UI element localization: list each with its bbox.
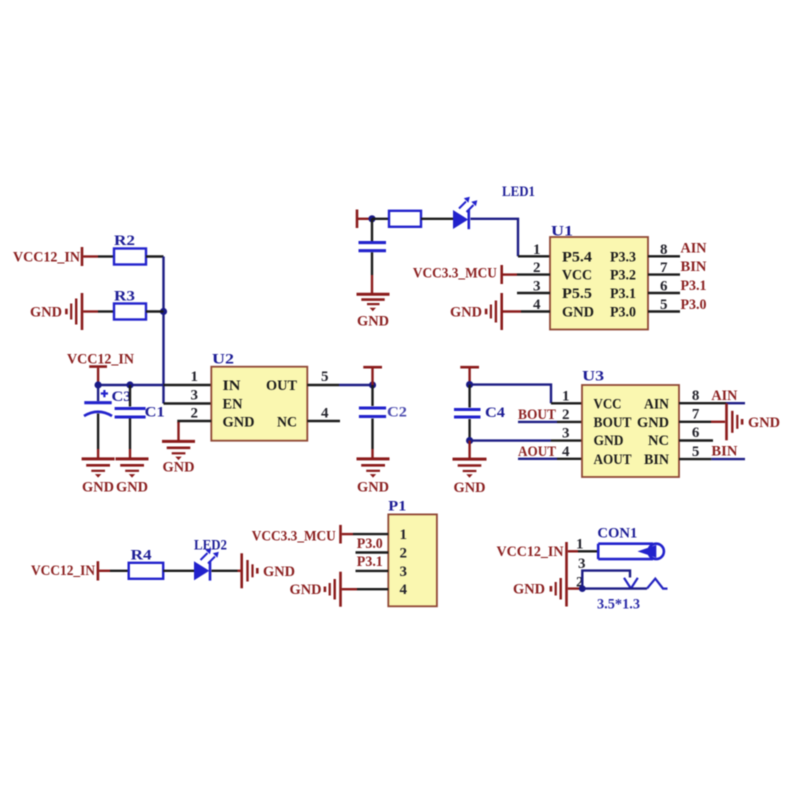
svg-text:GND: GND — [357, 480, 389, 496]
svg-text:GND: GND — [82, 480, 114, 496]
node junction at resistor/cap — [368, 215, 375, 222]
svg-text:GND: GND — [748, 415, 780, 431]
svg-text:3.5*1.3: 3.5*1.3 — [597, 597, 640, 613]
svg-text:P3.0: P3.0 — [610, 305, 636, 321]
svg-text:VCC12_IN: VCC12_IN — [67, 352, 134, 368]
ground (earth) below C1 — [116, 459, 149, 478]
regulator U2 body — [211, 367, 307, 441]
svg-text:GND: GND — [594, 433, 624, 449]
resistor R3 — [114, 304, 146, 320]
svg-text:3: 3 — [562, 426, 570, 442]
ground (earth) below LED1 cap — [357, 294, 390, 311]
svg-text:C2: C2 — [387, 405, 407, 421]
svg-text:VCC3.3_MCU: VCC3.3_MCU — [252, 529, 336, 545]
power terminal above C2 — [363, 366, 382, 369]
node junction at C1 — [126, 381, 133, 388]
svg-text:R3: R3 — [114, 289, 135, 305]
audio IC U3 body — [582, 385, 679, 477]
svg-text:GND: GND — [223, 415, 255, 431]
svg-text:U1: U1 — [551, 224, 573, 240]
wire GND to U1 pin4 — [503, 310, 521, 312]
node junction C4 top — [466, 381, 473, 388]
wire GND to R3 — [83, 310, 98, 312]
node junction at C2 — [369, 381, 376, 388]
svg-text:EN: EN — [223, 397, 243, 413]
jack sleeve wire and spring — [582, 587, 647, 589]
svg-text:U2: U2 — [212, 352, 234, 368]
svg-text:7: 7 — [692, 407, 700, 423]
svg-text:2: 2 — [562, 407, 570, 423]
node junction CON1 sleeve — [579, 585, 586, 592]
ground (bars) at LED2 — [242, 553, 258, 588]
svg-text:AIN: AIN — [681, 241, 707, 257]
wire P3.0 to P1 pin2 — [356, 551, 389, 553]
svg-text:1: 1 — [562, 389, 570, 405]
U1 pin3 stub — [517, 292, 550, 294]
svg-text:8: 8 — [692, 388, 700, 404]
U2 NC stub — [307, 420, 340, 422]
svg-text:IN: IN — [223, 378, 241, 394]
svg-text:4: 4 — [400, 582, 408, 598]
LED1 diode — [453, 197, 477, 229]
wire C4 bottom to ground — [468, 441, 470, 458]
svg-text:4: 4 — [562, 444, 570, 460]
svg-text:P5.4: P5.4 — [562, 249, 593, 265]
ground (bars) at CON1 — [551, 578, 561, 600]
wire C4 bottom to U3 pin3 — [470, 439, 551, 441]
svg-text:GND: GND — [357, 314, 389, 330]
svg-text:VCC12_IN: VCC12_IN — [13, 250, 80, 266]
svg-text:1: 1 — [400, 527, 408, 543]
wire junction to resistor — [372, 218, 389, 220]
svg-text:OUT: OUT — [266, 378, 297, 394]
ground (earth) below C4 — [453, 459, 487, 478]
wire U2 GND pin2 — [179, 421, 212, 423]
ground (bars) at R3 — [66, 293, 82, 330]
svg-text:BIN: BIN — [681, 259, 707, 275]
svg-text:AOUT: AOUT — [594, 452, 632, 468]
svg-text:P3.0: P3.0 — [681, 297, 707, 313]
wire GND bar to junction — [568, 587, 583, 589]
svg-text:P3.1: P3.1 — [357, 554, 383, 570]
svg-text:GND: GND — [30, 305, 62, 321]
wire C4 top to U3 pin1 — [470, 385, 551, 404]
wire stub to junction — [357, 218, 372, 220]
jack switch contact wires — [582, 571, 630, 589]
node junction R3 output — [160, 308, 167, 315]
svg-text:GND: GND — [450, 305, 482, 321]
svg-text:BOUT: BOUT — [594, 415, 632, 431]
U1 right pin stubs — [648, 255, 680, 257]
svg-text:GND: GND — [116, 480, 148, 496]
wire into U1 pin1 — [518, 255, 550, 257]
resistor R2 — [114, 249, 146, 265]
svg-text:GND: GND — [263, 564, 295, 580]
svg-text:GND: GND — [290, 582, 322, 598]
ground (earth) below C3 — [82, 459, 115, 478]
svg-text:GND: GND — [562, 305, 594, 321]
svg-text:5: 5 — [321, 369, 329, 385]
svg-text:BOUT: BOUT — [518, 407, 556, 423]
svg-text:P3.3: P3.3 — [610, 249, 636, 265]
wire AOUT to U3 pin4 — [518, 458, 557, 460]
svg-text:VCC3.3_MCU: VCC3.3_MCU — [413, 266, 497, 282]
ground (earth) at U2 pin2 — [162, 441, 195, 460]
svg-text:P3.2: P3.2 — [610, 268, 636, 284]
svg-text:5: 5 — [692, 444, 700, 460]
svg-text:GND: GND — [637, 415, 669, 431]
svg-text:U3: U3 — [582, 369, 604, 385]
svg-text:VCC: VCC — [594, 397, 622, 413]
ground (bars) at U3 pin7 — [727, 403, 743, 440]
op IC U1 body — [550, 237, 648, 330]
node junction C4 bottom — [466, 437, 473, 444]
wire LED2 to ground — [212, 570, 238, 572]
svg-text:AIN: AIN — [644, 397, 669, 413]
svg-text:GND: GND — [454, 480, 486, 496]
svg-text:P3.1: P3.1 — [610, 286, 636, 302]
jack barrel CON1 — [598, 544, 664, 559]
wire R2 to vertical net — [146, 255, 164, 257]
wire LED1 to U1 pin1 (net) — [471, 219, 519, 256]
wire resistor to LED1 — [421, 218, 453, 220]
svg-text:BIN: BIN — [644, 452, 669, 468]
svg-text:LED1: LED1 — [502, 184, 535, 200]
connector P1 body — [388, 514, 437, 606]
svg-text:C1: C1 — [145, 405, 165, 421]
capacitor C2 — [359, 385, 386, 458]
svg-text:VCC12_IN: VCC12_IN — [497, 544, 564, 560]
svg-text:C4: C4 — [485, 405, 506, 421]
wire U3 pin8 — [679, 402, 726, 404]
svg-text:CON1: CON1 — [597, 526, 637, 542]
svg-text:P3.1: P3.1 — [681, 278, 707, 294]
svg-text:P3.0: P3.0 — [357, 536, 383, 552]
svg-text:R4: R4 — [131, 548, 153, 564]
node junction at C3 — [95, 381, 102, 388]
svg-text:1: 1 — [576, 536, 584, 552]
ground (bars) at U1 pin4 — [486, 293, 502, 330]
wire R3 to junction — [146, 310, 164, 312]
capacitor C1 — [115, 385, 146, 458]
resistor R4 — [129, 563, 164, 579]
capacitor (LED1 filter, unlabelled) — [371, 219, 373, 241]
U3 pin6 stub — [679, 439, 713, 441]
resistor (unlabelled, LED1 series) — [389, 211, 421, 227]
svg-text:R2: R2 — [114, 233, 135, 249]
wire EN from vertical net — [164, 402, 212, 404]
svg-text:1: 1 — [533, 242, 541, 258]
svg-text:GND: GND — [163, 460, 195, 476]
svg-text:C3: C3 — [112, 389, 132, 405]
svg-text:P5.5: P5.5 — [562, 286, 592, 302]
wire U3 pin7 to ground — [679, 421, 711, 423]
svg-text:GND: GND — [513, 582, 545, 598]
vertical net R2/R3 to U2 EN — [162, 257, 164, 404]
power terminal above C4 — [460, 366, 479, 369]
terminal stub bar (left of LED1 resistor) — [356, 210, 359, 229]
svg-text:LED2: LED2 — [194, 538, 227, 554]
svg-text:6: 6 — [692, 425, 700, 441]
wire R4 to LED2 — [163, 570, 194, 572]
svg-text:BIN: BIN — [711, 443, 737, 459]
svg-text:VCC12_IN: VCC12_IN — [31, 563, 95, 579]
svg-text:3: 3 — [400, 564, 408, 580]
capacitor C3 (polarized) — [84, 385, 112, 458]
bus wire VCC12 to U2 IN — [98, 384, 163, 386]
wire BOUT to U3 pin2 — [518, 421, 557, 423]
wire U3 pin5 — [679, 458, 711, 460]
svg-text:NC: NC — [648, 433, 669, 449]
ground (bars) at P1 pin4 — [325, 572, 341, 607]
LED2 diode — [194, 548, 219, 580]
svg-text:2: 2 — [400, 546, 408, 562]
svg-text:4: 4 — [321, 406, 329, 422]
svg-text:1: 1 — [191, 369, 199, 385]
wire U2 OUT — [307, 384, 339, 386]
svg-text:2: 2 — [191, 406, 199, 422]
svg-text:NC: NC — [277, 415, 297, 431]
wire GND to P1 pin4 — [342, 588, 357, 590]
svg-text:VCC: VCC — [562, 268, 592, 284]
wire P3.1 to P1 pin3 — [356, 570, 389, 572]
svg-text:3: 3 — [191, 388, 199, 404]
svg-text:AIN: AIN — [711, 388, 737, 404]
svg-text:P1: P1 — [388, 499, 406, 515]
wire CON1 pin1 — [568, 550, 578, 552]
ground (earth) below C2 — [357, 459, 390, 478]
capacitor C4 — [454, 385, 481, 441]
